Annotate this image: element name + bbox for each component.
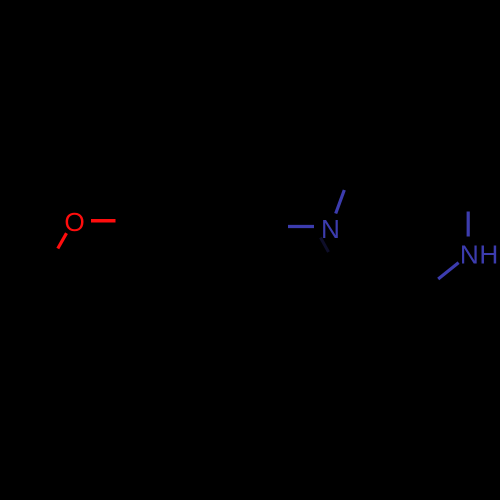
wire: O-C(aryl) bond (red half)	[91, 219, 116, 223]
wire: O-CH3 bond (red half)	[58, 233, 67, 248]
wire: N1-C2 bond (faint dark half, down-right)	[321, 238, 329, 253]
wire: C5-N4 bond (blue half, vertical)	[467, 212, 470, 237]
svg-text:N: N	[321, 214, 340, 244]
svg-text:N: N	[460, 239, 479, 269]
wire: C(aryl)-N1 bond (blue half)	[288, 225, 314, 228]
wire: N4-C3 bond (blue half, down-left)	[438, 263, 458, 279]
svg-text:H: H	[479, 239, 498, 269]
wire: N1-C7 bond (blue half, up-right)	[336, 190, 345, 214]
svg-text:O: O	[64, 207, 84, 237]
